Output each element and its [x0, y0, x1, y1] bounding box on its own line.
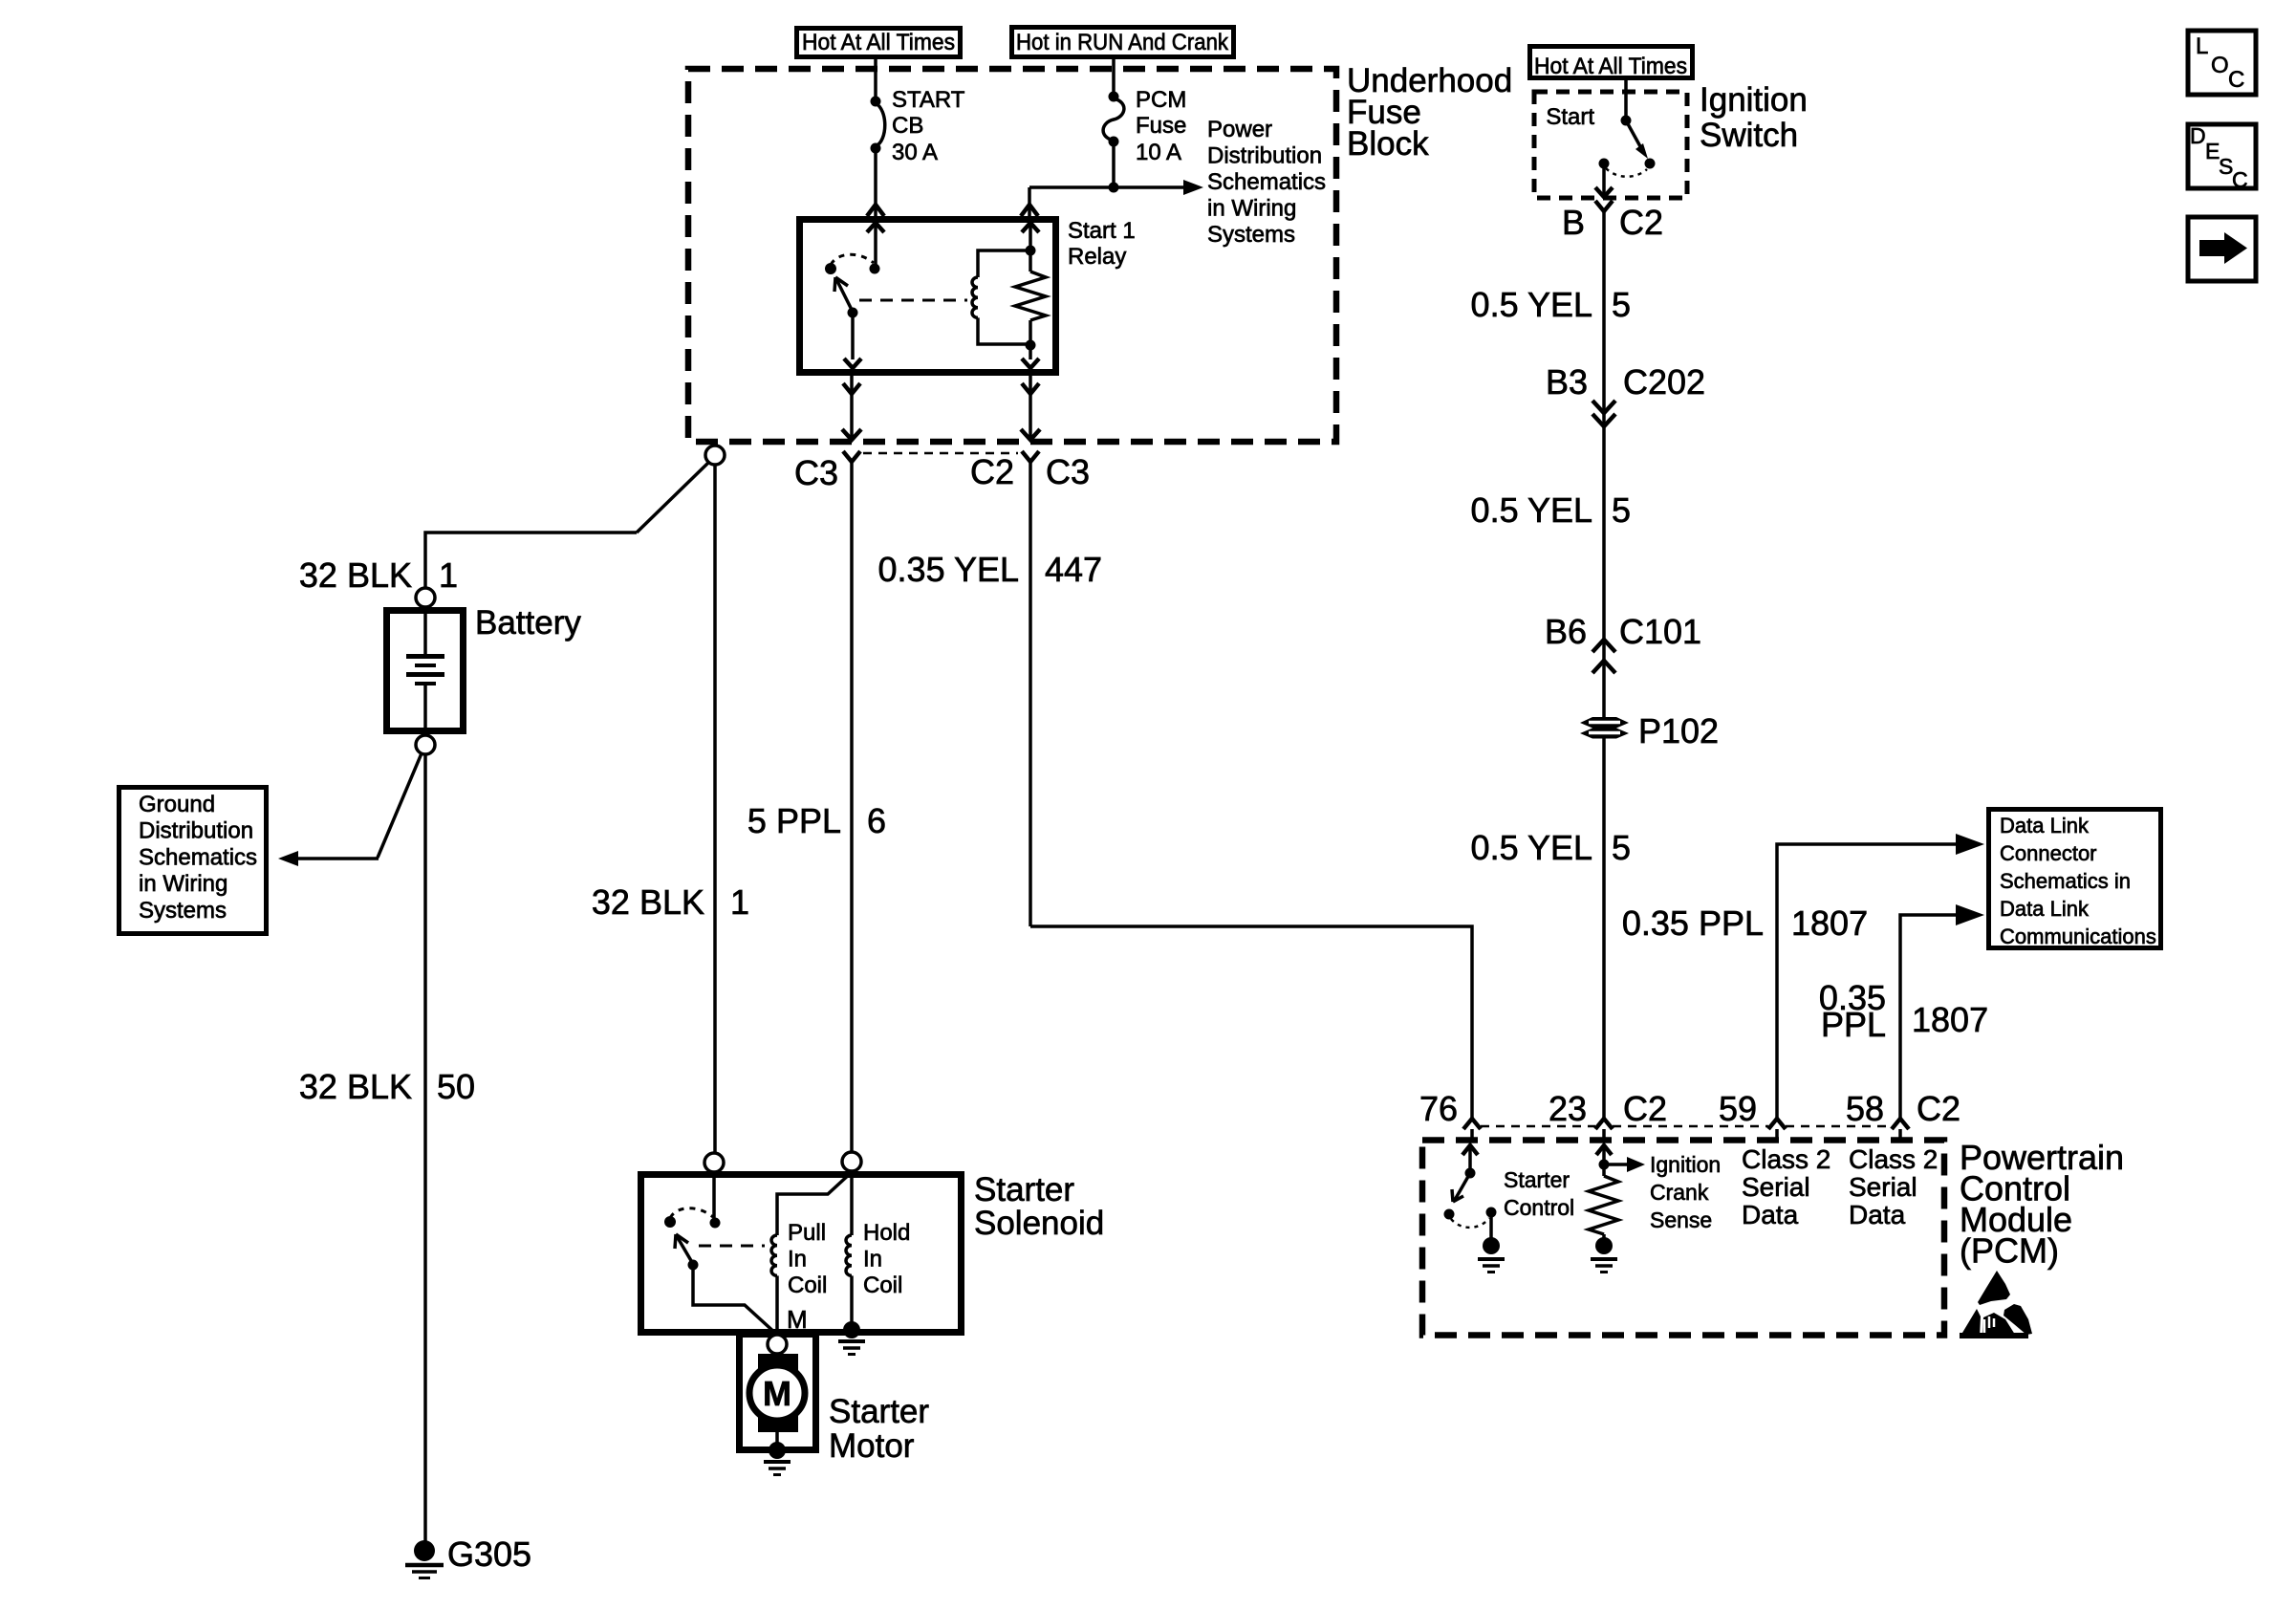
svg-text:Hot At All Times: Hot At All Times — [1534, 54, 1687, 79]
svg-text:50: 50 — [437, 1067, 475, 1106]
svg-text:0.5 YEL: 0.5 YEL — [1471, 828, 1592, 867]
svg-text:Crank: Crank — [1650, 1180, 1709, 1205]
svg-text:Connector: Connector — [2000, 841, 2097, 865]
svg-text:Solenoid: Solenoid — [974, 1205, 1104, 1242]
svg-text:1: 1 — [439, 555, 458, 595]
svg-text:In: In — [863, 1247, 882, 1273]
svg-text:Starter: Starter — [829, 1393, 929, 1430]
svg-text:Hot At All Times: Hot At All Times — [802, 30, 955, 55]
svg-text:5: 5 — [1612, 828, 1631, 867]
svg-text:C2: C2 — [1623, 1089, 1667, 1128]
svg-text:6: 6 — [867, 801, 886, 840]
svg-text:PPL: PPL — [1821, 1005, 1886, 1044]
svg-text:Class 2: Class 2 — [1742, 1144, 1830, 1174]
svg-text:Start 1: Start 1 — [1068, 218, 1136, 244]
svg-text:START: START — [892, 87, 965, 113]
svg-text:C2: C2 — [1619, 203, 1663, 242]
svg-text:32 BLK: 32 BLK — [592, 882, 704, 922]
svg-text:M: M — [787, 1305, 808, 1334]
svg-text:32 BLK: 32 BLK — [299, 1067, 412, 1106]
svg-text:Battery: Battery — [475, 604, 581, 642]
svg-text:0.5 YEL: 0.5 YEL — [1471, 490, 1592, 530]
svg-text:in Wiring: in Wiring — [1207, 196, 1296, 222]
svg-text:Coil: Coil — [788, 1273, 827, 1298]
svg-text:Communications: Communications — [2000, 925, 2156, 948]
svg-text:C101: C101 — [1619, 612, 1701, 651]
svg-text:P102: P102 — [1638, 711, 1719, 751]
svg-text:Motor: Motor — [829, 1427, 915, 1465]
svg-text:B3: B3 — [1546, 362, 1588, 402]
svg-text:Systems: Systems — [1207, 222, 1295, 248]
svg-text:Ignition: Ignition — [1700, 81, 1808, 119]
svg-text:in Wiring: in Wiring — [139, 871, 227, 897]
svg-text:Start: Start — [1546, 104, 1594, 130]
svg-text:Data: Data — [1849, 1200, 1906, 1229]
svg-text:Distribution: Distribution — [1207, 143, 1322, 169]
svg-text:D: D — [2190, 123, 2206, 148]
svg-text:Block: Block — [1347, 125, 1429, 163]
svg-text:0.35 YEL: 0.35 YEL — [878, 550, 1019, 589]
svg-text:Hold: Hold — [863, 1220, 910, 1246]
svg-text:10 A: 10 A — [1136, 140, 1181, 165]
svg-text:Serial: Serial — [1742, 1172, 1810, 1202]
svg-text:B6: B6 — [1545, 612, 1587, 651]
svg-text:0.5 YEL: 0.5 YEL — [1471, 285, 1592, 324]
svg-text:447: 447 — [1045, 550, 1102, 589]
svg-text:Distribution: Distribution — [139, 818, 253, 844]
svg-text:Data Link: Data Link — [2000, 814, 2090, 838]
svg-text:C: C — [2228, 67, 2244, 93]
svg-text:Coil: Coil — [863, 1273, 902, 1298]
svg-text:Starter: Starter — [1504, 1167, 1570, 1192]
svg-text:Control: Control — [1504, 1195, 1574, 1220]
svg-text:Serial: Serial — [1849, 1172, 1917, 1202]
svg-text:O: O — [2211, 53, 2229, 78]
svg-text:C3: C3 — [1046, 452, 1090, 491]
svg-text:Hot in RUN And Crank: Hot in RUN And Crank — [1016, 30, 1229, 55]
svg-text:30 A: 30 A — [892, 140, 938, 165]
svg-text:5: 5 — [1612, 490, 1631, 530]
svg-text:Systems: Systems — [139, 898, 227, 924]
svg-text:Ignition: Ignition — [1650, 1152, 1721, 1177]
svg-text:C3: C3 — [794, 453, 838, 492]
svg-text:C2: C2 — [1917, 1089, 1960, 1128]
svg-text:Starter: Starter — [974, 1171, 1074, 1208]
svg-text:C: C — [2232, 167, 2248, 192]
svg-text:58: 58 — [1846, 1089, 1884, 1128]
svg-text:PCM: PCM — [1136, 87, 1186, 113]
svg-text:G305: G305 — [447, 1534, 531, 1574]
svg-text:Relay: Relay — [1068, 244, 1126, 270]
svg-text:Sense: Sense — [1650, 1207, 1712, 1232]
svg-text:Power: Power — [1207, 117, 1272, 142]
svg-text:Ground: Ground — [139, 792, 215, 817]
svg-text:Schematics: Schematics — [1207, 169, 1326, 195]
svg-text:B: B — [1562, 203, 1585, 242]
svg-text:76: 76 — [1419, 1089, 1458, 1128]
svg-text:L: L — [2196, 33, 2208, 59]
svg-text:Switch: Switch — [1700, 117, 1798, 154]
svg-text:5: 5 — [1612, 285, 1631, 324]
svg-text:Fuse: Fuse — [1136, 113, 1186, 139]
svg-text:C2: C2 — [970, 452, 1014, 491]
svg-text:5 PPL: 5 PPL — [747, 801, 841, 840]
svg-text:Data: Data — [1742, 1200, 1799, 1229]
svg-text:Schematics: Schematics — [139, 844, 257, 870]
svg-text:CB: CB — [892, 113, 923, 139]
svg-text:C202: C202 — [1623, 362, 1705, 402]
svg-text:Data Link: Data Link — [2000, 897, 2090, 921]
svg-text:1: 1 — [730, 882, 749, 922]
svg-text:(PCM): (PCM) — [1960, 1231, 2059, 1271]
svg-text:59: 59 — [1719, 1089, 1757, 1128]
svg-text:Pull: Pull — [788, 1220, 826, 1246]
svg-text:1807: 1807 — [1912, 1000, 1988, 1039]
svg-text:32 BLK: 32 BLK — [299, 555, 412, 595]
svg-text:23: 23 — [1549, 1089, 1587, 1128]
svg-text:Schematics in: Schematics in — [2000, 869, 2131, 893]
svg-text:In: In — [788, 1247, 807, 1273]
svg-text:1807: 1807 — [1791, 903, 1868, 943]
svg-text:0.35 PPL: 0.35 PPL — [1622, 903, 1764, 943]
svg-text:Class 2: Class 2 — [1849, 1144, 1938, 1174]
svg-text:M: M — [763, 1374, 791, 1413]
